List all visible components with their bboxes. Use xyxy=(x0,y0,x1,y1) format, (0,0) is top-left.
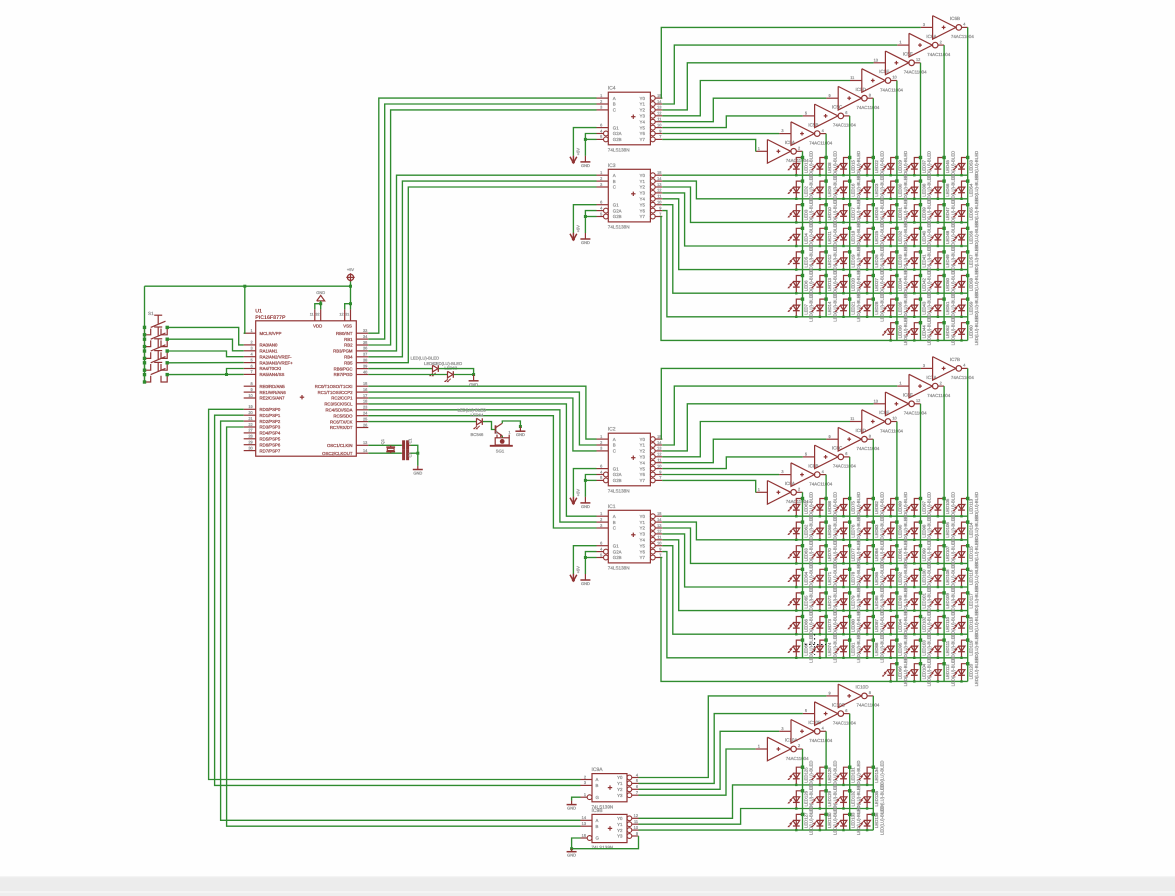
junction LED23 anode xyxy=(872,179,875,182)
svg-text:RB1: RB1 xyxy=(344,337,353,342)
junction LED118 cathode xyxy=(960,633,962,635)
svg-text:B: B xyxy=(613,443,616,448)
svg-text:LED33: LED33 xyxy=(898,254,903,268)
svg-text:B: B xyxy=(596,824,599,829)
wire LED63 to gnd xyxy=(454,374,474,376)
wire row 6 xyxy=(662,546,968,635)
svg-text:9: 9 xyxy=(829,691,831,696)
pin U1.OSC2/CLKOUT (14) xyxy=(356,452,368,454)
svg-text:LED39: LED39 xyxy=(921,207,926,221)
pin IC3.Y7 (7) xyxy=(650,214,655,219)
LED LED78 xyxy=(844,569,850,587)
pin U1.RB5 (38) xyxy=(356,362,368,364)
svg-text:LED(LU)-BLED: LED(LU)-BLED xyxy=(856,806,861,835)
junction LED11 cathode xyxy=(819,245,821,247)
LED LED26 xyxy=(867,252,873,270)
svg-text:RA4/T0CKI: RA4/T0CKI xyxy=(260,366,282,371)
svg-text:6: 6 xyxy=(845,451,847,456)
svg-text:VSS: VSS xyxy=(343,323,352,328)
LED LED14 xyxy=(820,299,826,317)
svg-text:38: 38 xyxy=(363,358,367,363)
LED LED20 xyxy=(844,276,850,294)
junction LED25 anode xyxy=(872,227,875,230)
LED LED65 xyxy=(796,593,802,611)
LED LED79 xyxy=(844,593,850,611)
svg-text:15: 15 xyxy=(363,381,367,386)
LED LED74 xyxy=(820,640,826,658)
inverter IC6A 74AC11004 xyxy=(909,33,932,57)
svg-text:RA1/AN1: RA1/AN1 xyxy=(260,349,279,354)
LED LED89 xyxy=(891,499,897,517)
svg-text:LED4: LED4 xyxy=(803,233,808,244)
svg-text:31: 31 xyxy=(345,313,349,317)
svg-text:LED47: LED47 xyxy=(945,207,950,221)
junction LED35 cathode xyxy=(890,316,892,318)
svg-text:GND: GND xyxy=(316,290,325,295)
svg-text:LED23: LED23 xyxy=(874,183,879,197)
junction LED77 anode xyxy=(848,544,851,547)
wire T1 collector to gnd xyxy=(502,421,520,427)
junction LED18 anode xyxy=(848,227,851,230)
junction LED84 anode xyxy=(872,544,875,547)
junction LED112 anode xyxy=(942,662,945,665)
svg-text:Y0: Y0 xyxy=(617,775,623,780)
LED LED67 xyxy=(796,640,802,658)
svg-text:LED83: LED83 xyxy=(874,524,879,538)
LED LED1 xyxy=(796,158,802,176)
junction LED69 anode xyxy=(824,520,827,523)
wire column 5 xyxy=(896,422,898,682)
junction LED92 cathode xyxy=(890,586,892,588)
LED LED16 xyxy=(844,181,850,199)
junction LED42 cathode xyxy=(913,292,915,294)
LED LED24 xyxy=(867,205,873,223)
pin IC3.G2B (5) xyxy=(597,216,604,218)
LED LED45 xyxy=(938,158,944,176)
junction LED27 anode xyxy=(872,274,875,277)
svg-text:35: 35 xyxy=(363,340,367,345)
svg-text:74AC11004: 74AC11004 xyxy=(951,34,974,39)
junction LED111 cathode xyxy=(937,657,939,659)
LED LED35 xyxy=(891,299,897,317)
junction LED62 anode xyxy=(801,520,804,523)
junction LED106 anode xyxy=(942,520,945,523)
svg-text:LED(LU)-BLED: LED(LU)-BLED xyxy=(974,657,979,686)
junction LED56 anode xyxy=(966,227,969,230)
LED LED116 xyxy=(962,569,968,587)
wire G1 to +5V xyxy=(573,469,596,497)
junction LED64 anode xyxy=(801,568,804,571)
svg-text:Y4: Y4 xyxy=(640,460,646,465)
pin IC1.G1 (6) xyxy=(597,545,609,547)
ground xyxy=(584,233,586,239)
svg-text:LED25: LED25 xyxy=(874,230,879,244)
svg-text:RC0/T1OSO/T1CKI: RC0/T1OSO/T1CKI xyxy=(315,384,353,389)
pin U1.RD5/PSP5 (28) xyxy=(244,438,256,440)
wire RB0 to decoder input xyxy=(368,98,596,333)
svg-text:G2A: G2A xyxy=(613,549,622,554)
LED LED23 xyxy=(867,181,873,199)
svg-text:+5V: +5V xyxy=(576,489,581,497)
junction LED35 anode xyxy=(895,297,898,300)
junction LED117 cathode xyxy=(960,609,962,611)
svg-text:LED109: LED109 xyxy=(945,592,950,608)
junction LED44 cathode xyxy=(913,339,915,341)
junction LED42 anode xyxy=(919,274,922,277)
svg-text:LED113: LED113 xyxy=(969,498,974,514)
svg-text:LED6: LED6 xyxy=(803,280,808,291)
svg-text:LED(LU)-BLED: LED(LU)-BLED xyxy=(903,316,908,345)
LED LED117 xyxy=(962,593,968,611)
inverter IC5B 74AC11004 xyxy=(791,122,814,146)
svg-text:3: 3 xyxy=(600,523,602,528)
svg-text:Y2: Y2 xyxy=(617,828,623,833)
svg-text:LED2: LED2 xyxy=(803,185,808,196)
svg-text:26: 26 xyxy=(363,422,367,427)
svg-text:LED92: LED92 xyxy=(898,571,903,585)
wire switch bus xyxy=(144,286,146,382)
svg-text:Y1: Y1 xyxy=(640,102,646,107)
svg-text:BC546: BC546 xyxy=(471,432,484,437)
wire OSC1 xyxy=(368,444,402,446)
LED LED40 xyxy=(914,228,920,246)
pin U1 top (12) xyxy=(344,309,346,320)
junction LED69 cathode xyxy=(819,539,821,541)
svg-text:LED32: LED32 xyxy=(898,230,903,244)
junction S4 pins xyxy=(143,369,146,372)
wire row 5 xyxy=(662,540,968,611)
svg-text:37: 37 xyxy=(363,352,367,357)
LED LED47 xyxy=(938,205,944,223)
svg-text:Y7: Y7 xyxy=(640,478,646,483)
pin U1.RB7/PGD (40) xyxy=(356,374,368,376)
inverter IC8A 74AC11004 xyxy=(767,481,790,505)
svg-text:3: 3 xyxy=(600,105,602,110)
junction MCLR rail xyxy=(243,285,246,288)
svg-text:RB2: RB2 xyxy=(344,343,353,348)
junction S3 pins xyxy=(143,357,146,360)
svg-text:Y7: Y7 xyxy=(640,137,646,142)
svg-text:LED94: LED94 xyxy=(898,618,903,632)
svg-text:5: 5 xyxy=(600,475,602,480)
svg-text:LED8: LED8 xyxy=(827,162,832,173)
svg-text:LED38: LED38 xyxy=(921,183,926,197)
svg-text:GND: GND xyxy=(567,853,576,858)
svg-text:LED93: LED93 xyxy=(898,595,903,609)
LED LED11 xyxy=(820,228,826,246)
LED LED60 xyxy=(962,323,968,341)
LED LED70 xyxy=(820,546,826,564)
svg-text:SG1: SG1 xyxy=(496,449,505,454)
svg-text:LED35: LED35 xyxy=(898,301,903,315)
svg-text:19: 19 xyxy=(248,404,252,409)
svg-text:Y1: Y1 xyxy=(617,781,623,786)
junction LED21 cathode xyxy=(842,316,844,318)
junction LED71 cathode xyxy=(819,586,821,588)
junction LED133 anode xyxy=(848,813,851,816)
capacitor C2 xyxy=(402,449,405,460)
svg-text:74AC11004: 74AC11004 xyxy=(857,703,880,708)
pin IC9A.G (1) xyxy=(581,796,588,798)
switch S3 xyxy=(151,345,166,351)
svg-text:7: 7 xyxy=(659,475,661,480)
decoder IC3 74LS138N xyxy=(608,169,650,222)
pin U1.RC4/SDI/SDA (23) xyxy=(356,409,368,411)
junction LED96 anode xyxy=(895,662,898,665)
pin IC2.Y0 (15) xyxy=(650,437,655,442)
svg-text:LED19: LED19 xyxy=(851,254,856,268)
LED LED48 xyxy=(938,228,944,246)
wire LED64 to T1 base xyxy=(483,422,496,430)
svg-text:LED(LU)-BLED: LED(LU)-BLED xyxy=(856,292,861,321)
pin IC1.G2A (4) xyxy=(597,551,604,553)
junction LED47 cathode xyxy=(937,221,939,223)
svg-text:LED87: LED87 xyxy=(874,618,879,632)
junction LED127 anode xyxy=(801,813,804,816)
svg-text:LED112: LED112 xyxy=(945,664,950,680)
wire S5 to RA5 xyxy=(167,373,244,375)
svg-text:LED24: LED24 xyxy=(874,207,879,221)
junction LED29 anode xyxy=(895,156,898,159)
svg-text:LED119: LED119 xyxy=(969,640,974,656)
svg-text:12: 12 xyxy=(339,313,343,317)
svg-text:LED89: LED89 xyxy=(898,500,903,514)
junction VDD xyxy=(319,302,322,305)
junction LED81 cathode xyxy=(842,657,844,659)
wire RC5 to decoder input xyxy=(368,416,596,528)
junction LED19 anode xyxy=(848,250,851,253)
junction LED39 anode xyxy=(919,203,922,206)
LED LED4 xyxy=(796,228,802,246)
decoder IC1 74LS138N xyxy=(608,510,650,563)
LED LED75 xyxy=(844,499,850,517)
svg-text:5: 5 xyxy=(805,452,807,457)
pin IC2.G2A (4) xyxy=(597,474,604,476)
svg-text:GND: GND xyxy=(516,432,525,437)
LED LED6 xyxy=(796,276,802,294)
svg-text:LED26: LED26 xyxy=(874,254,879,268)
svg-text:36: 36 xyxy=(363,346,367,351)
wire caps to gnd xyxy=(411,445,418,466)
svg-text:3: 3 xyxy=(781,469,783,474)
svg-text:LED52: LED52 xyxy=(945,325,950,339)
junction LED63 cathode xyxy=(795,562,797,564)
svg-text:74LS138N: 74LS138N xyxy=(608,565,630,570)
LED LED86 xyxy=(867,593,873,611)
svg-text:RE2/CS/AN7: RE2/CS/AN7 xyxy=(260,396,286,401)
inverter IC7B 74AC11004 xyxy=(933,357,956,381)
LED LED37 xyxy=(914,158,920,176)
svg-text:2: 2 xyxy=(798,487,800,492)
junction LED102 anode xyxy=(919,615,922,618)
junction LED2 cathode xyxy=(795,198,797,200)
LED LED52 xyxy=(938,323,944,341)
svg-text:RB5: RB5 xyxy=(344,360,353,365)
svg-text:12: 12 xyxy=(657,188,661,193)
junction LED18 cathode xyxy=(842,245,844,247)
svg-text:LED84: LED84 xyxy=(874,548,879,562)
svg-text:1: 1 xyxy=(509,430,511,434)
inverter IC8C 74AC11004 xyxy=(815,445,838,469)
svg-text:LED29: LED29 xyxy=(898,159,903,173)
svg-text:LED102: LED102 xyxy=(921,616,926,632)
svg-text:Y0: Y0 xyxy=(640,96,646,101)
svg-text:LED104: LED104 xyxy=(921,663,926,679)
pin IC1.Y2 (13) xyxy=(650,526,655,531)
wire row 1 xyxy=(662,174,968,176)
svg-text:LED(LU)-BLED: LED(LU)-BLED xyxy=(809,292,814,321)
junction LED40 anode xyxy=(919,227,922,230)
junction LED68 anode xyxy=(824,497,827,500)
junction LED46 cathode xyxy=(937,198,939,200)
junction LED98 anode xyxy=(919,520,922,523)
LED LED68 xyxy=(820,499,826,517)
junction LED16 anode xyxy=(848,179,851,182)
svg-text:LED53: LED53 xyxy=(969,159,974,173)
junction S3 left xyxy=(143,349,146,352)
LED LED54 xyxy=(962,181,968,199)
svg-text:2: 2 xyxy=(600,176,602,181)
LED LED109 xyxy=(938,593,944,611)
LED LED53 xyxy=(962,158,968,176)
junction LED114 anode xyxy=(966,520,969,523)
svg-text:RA5/AN4/SS: RA5/AN4/SS xyxy=(260,372,285,377)
junction LED20 anode xyxy=(848,274,851,277)
svg-text:RB7/PGD: RB7/PGD xyxy=(334,372,353,377)
svg-text:LED(LU)-BLED: LED(LU)-BLED xyxy=(880,292,885,321)
pin IC3.G2A (4) xyxy=(597,210,604,212)
junction LED13 cathode xyxy=(819,292,821,294)
svg-text:LED44: LED44 xyxy=(921,325,926,339)
svg-text:74AC11004: 74AC11004 xyxy=(786,158,809,163)
junction LED105 anode xyxy=(942,497,945,500)
pin IC3.Y3 (12) xyxy=(650,191,655,196)
LED LED17 xyxy=(844,205,850,223)
svg-text:B: B xyxy=(596,783,599,788)
LED LED85 xyxy=(867,569,873,587)
junction LED8 cathode xyxy=(819,174,821,176)
junction LED31 cathode xyxy=(890,221,892,223)
wire VDD pair xyxy=(315,304,321,310)
wire G2B to gnd xyxy=(585,138,596,140)
svg-text:Y3: Y3 xyxy=(640,191,646,196)
svg-text:LED55: LED55 xyxy=(969,207,974,221)
svg-text:Y6: Y6 xyxy=(640,208,646,213)
svg-text:LED(LU)-BLED: LED(LU)-BLED xyxy=(903,657,908,686)
wire G1 to +5V xyxy=(573,205,596,233)
svg-text:2: 2 xyxy=(940,39,942,44)
pin IC4.G1 (6) xyxy=(597,127,609,129)
svg-text:21: 21 xyxy=(248,416,252,421)
junction LED74 anode xyxy=(824,638,827,641)
ground xyxy=(584,156,586,162)
junction LED81 anode xyxy=(848,638,851,641)
junction LED126 anode xyxy=(801,789,804,792)
pin U1.RD4/PSP4 (27) xyxy=(244,432,256,434)
junction LED13 anode xyxy=(824,274,827,277)
LED LED42 xyxy=(914,276,920,294)
LED LED3 xyxy=(796,205,802,223)
pin IC4.Y7 (7) xyxy=(650,137,655,142)
LED LED28 xyxy=(867,299,873,317)
wire IC4.Y7 to IC5A xyxy=(662,139,756,151)
svg-text:74AC11004: 74AC11004 xyxy=(927,393,950,398)
svg-text:Y7: Y7 xyxy=(640,214,646,219)
wire VSS pair xyxy=(345,304,351,310)
junction LED50 cathode xyxy=(937,292,939,294)
junction LED10 anode xyxy=(824,203,827,206)
svg-text:3: 3 xyxy=(923,22,925,27)
wire row 7 xyxy=(662,552,968,658)
wire G2A to gnd xyxy=(585,211,596,217)
junction LED93 cathode xyxy=(890,609,892,611)
svg-text:+5V: +5V xyxy=(347,267,355,272)
LED LED107 xyxy=(938,546,944,564)
LED LED62 xyxy=(796,522,802,540)
wire S3 to RA2 xyxy=(167,351,244,357)
wire row 1 xyxy=(662,515,968,517)
LED LED72 xyxy=(820,593,826,611)
svg-text:74AC11004: 74AC11004 xyxy=(880,87,903,92)
svg-text:IC1: IC1 xyxy=(608,504,616,510)
LED LED93 xyxy=(891,593,897,611)
pin IC4.A (1) xyxy=(597,97,609,99)
pin IC1.C (3) xyxy=(597,527,609,529)
pin IC2.Y2 (13) xyxy=(650,449,655,454)
pin U1.RC6/TX/CK (25) xyxy=(356,421,368,423)
wire bottom row 3 xyxy=(639,829,874,831)
svg-text:LED82: LED82 xyxy=(874,500,879,514)
junction LED134 anode xyxy=(872,766,875,769)
svg-text:LED110: LED110 xyxy=(945,616,950,632)
junction LED73 anode xyxy=(824,615,827,618)
junction LED73 cathode xyxy=(819,633,821,635)
LED LED97 xyxy=(914,499,920,517)
svg-text:LED76: LED76 xyxy=(851,524,856,538)
wire row 3 xyxy=(662,528,968,563)
svg-text:LED49: LED49 xyxy=(945,254,950,268)
svg-text:1: 1 xyxy=(584,792,586,797)
pin IC2.G1 (6) xyxy=(597,468,609,470)
pin U1.RA3/AN3/VREF+ (5) xyxy=(244,362,256,364)
LED LED81 xyxy=(844,640,850,658)
junction LED53 anode xyxy=(966,156,969,159)
decoder IC9A 74LS139N xyxy=(592,774,627,802)
svg-text:5: 5 xyxy=(636,778,638,783)
junction LED97 cathode xyxy=(913,515,915,517)
junction LED7 anode xyxy=(801,297,804,300)
LED LED129 xyxy=(820,791,826,809)
svg-text:LED103: LED103 xyxy=(921,640,926,656)
svg-text:LED100: LED100 xyxy=(921,569,926,585)
junction LED25 cathode xyxy=(866,245,868,247)
svg-text:LED14: LED14 xyxy=(827,301,832,315)
svg-text:G2A: G2A xyxy=(613,208,622,213)
svg-text:15: 15 xyxy=(657,511,661,516)
svg-text:RC2/CCP1: RC2/CCP1 xyxy=(331,396,353,401)
svg-text:LED(LU)-BLED: LED(LU)-BLED xyxy=(411,355,440,360)
svg-text:PIC16F877P: PIC16F877P xyxy=(255,315,286,321)
junction LED84 cathode xyxy=(866,562,868,564)
svg-text:LED105: LED105 xyxy=(945,498,950,514)
svg-text:LED22: LED22 xyxy=(874,159,879,173)
svg-text:Y5: Y5 xyxy=(640,466,646,471)
svg-text:LED65: LED65 xyxy=(803,595,808,609)
junction RA4 tap xyxy=(225,373,228,376)
svg-text:GND: GND xyxy=(581,581,590,586)
svg-text:GND: GND xyxy=(581,240,590,245)
inverter IC10B 74AC11004 xyxy=(791,720,814,744)
